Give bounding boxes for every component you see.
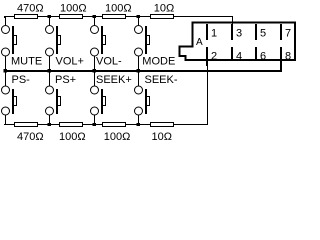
node: bus junction 2 — [48, 69, 52, 73]
svg-text:4: 4 — [236, 50, 242, 62]
wire: dropper to button — [94, 17, 95, 26]
push-button S3 VOL- (NO momentary) — [91, 26, 99, 34]
node: bottom chain junction 4 — [137, 123, 141, 126]
wire: stub to common bus — [138, 56, 139, 71]
svg-text:470Ω: 470Ω — [17, 3, 44, 15]
wire: stub to common bus — [49, 56, 50, 71]
wire: bottom resistor chain to pin 2 — [4, 124, 5, 125]
svg-text:3: 3 — [236, 28, 242, 40]
svg-text:100Ω: 100Ω — [59, 131, 86, 143]
pin 3 — [231, 24, 233, 40]
resistor R1 470Ω (top chain) — [14, 14, 38, 19]
resistor R8 10Ω (bottom chain) — [150, 122, 174, 127]
svg-text:A: A — [196, 37, 203, 48]
node: top chain junction 3 — [93, 15, 97, 18]
wire: dropper to button — [49, 17, 50, 26]
wire: stub to bottom chain — [49, 115, 50, 124]
svg-text:1: 1 — [211, 28, 217, 40]
resistor R5 470Ω (bottom chain) — [14, 122, 38, 127]
node: bus junction 1 — [4, 69, 8, 73]
push-button S4 MODE (NO momentary) — [135, 26, 143, 34]
svg-text:470Ω: 470Ω — [17, 131, 44, 143]
pin 5 — [255, 24, 257, 40]
svg-text:PS-: PS- — [12, 74, 31, 86]
wire: left dropper from top chain — [4, 16, 5, 18]
svg-text:VOL+: VOL+ — [56, 56, 84, 68]
node: top chain junction 2 — [48, 15, 52, 18]
wire: stub to bottom chain — [138, 115, 139, 124]
node: bus junction 3 — [93, 69, 97, 73]
wire: stub to common bus — [5, 56, 6, 71]
connector J1 radio plug outline with key notch — [180, 23, 296, 61]
svg-text:SEEK+: SEEK+ — [96, 74, 132, 86]
resistor R2 100Ω (top chain) — [59, 14, 83, 19]
wire: top resistor chain — [4, 16, 233, 17]
wire: common bus to pin 8 — [4, 70, 282, 72]
svg-text:10Ω: 10Ω — [152, 131, 172, 143]
svg-text:PS+: PS+ — [55, 74, 76, 86]
pin 6 — [255, 47, 257, 60]
wire: stub from bus — [49, 72, 50, 86]
svg-text:MUTE: MUTE — [11, 56, 42, 68]
svg-text:SEEK-: SEEK- — [145, 74, 178, 86]
pin 8 — [280, 47, 282, 60]
resistor R6 100Ω (bottom chain) — [59, 122, 83, 127]
pin 1 — [206, 24, 208, 40]
wire: stub to bottom chain — [94, 115, 95, 124]
svg-text:100Ω: 100Ω — [104, 131, 131, 143]
resistor R7 100Ω (bottom chain) — [102, 122, 126, 127]
svg-text:6: 6 — [260, 50, 266, 62]
wire: stub to common bus — [94, 56, 95, 71]
svg-text:VOL-: VOL- — [96, 56, 122, 68]
svg-text:100Ω: 100Ω — [60, 3, 87, 15]
pin 7 — [280, 24, 282, 40]
push-button S2 VOL+ (NO momentary) — [46, 26, 54, 34]
wire: stub from bus — [94, 72, 95, 86]
svg-text:7: 7 — [285, 28, 291, 40]
svg-text:100Ω: 100Ω — [105, 3, 132, 15]
svg-text:8: 8 — [285, 50, 291, 62]
svg-text:MODE: MODE — [142, 56, 175, 68]
resistor R4 10Ω (top chain) — [150, 14, 174, 19]
svg-text:2: 2 — [211, 50, 217, 62]
pin 4 — [231, 47, 233, 60]
wire: stub from bus — [5, 72, 6, 86]
wire: pin 8 down to common bus — [280, 60, 282, 71]
wire: dropper to button — [138, 17, 139, 26]
node: bottom chain junction 3 — [93, 123, 97, 126]
wire: top chain into pin 3 — [232, 16, 233, 25]
push-button S1 MUTE (NO momentary) — [2, 26, 10, 34]
wire: left riser — [5, 115, 6, 124]
svg-text:5: 5 — [260, 28, 266, 40]
svg-text:10Ω: 10Ω — [154, 3, 174, 15]
node: bus junction 4 — [137, 69, 141, 73]
resistor R3 100Ω (top chain) — [102, 14, 126, 19]
node: top chain junction 4 — [137, 15, 141, 18]
pin 2 — [206, 47, 208, 66]
wire: stub from bus — [138, 72, 139, 86]
wire: pin 2 down to bottom chain — [207, 66, 208, 124]
wire: stub to bottom chain — [5, 115, 6, 124]
node: bottom chain junction 2 — [48, 123, 52, 126]
